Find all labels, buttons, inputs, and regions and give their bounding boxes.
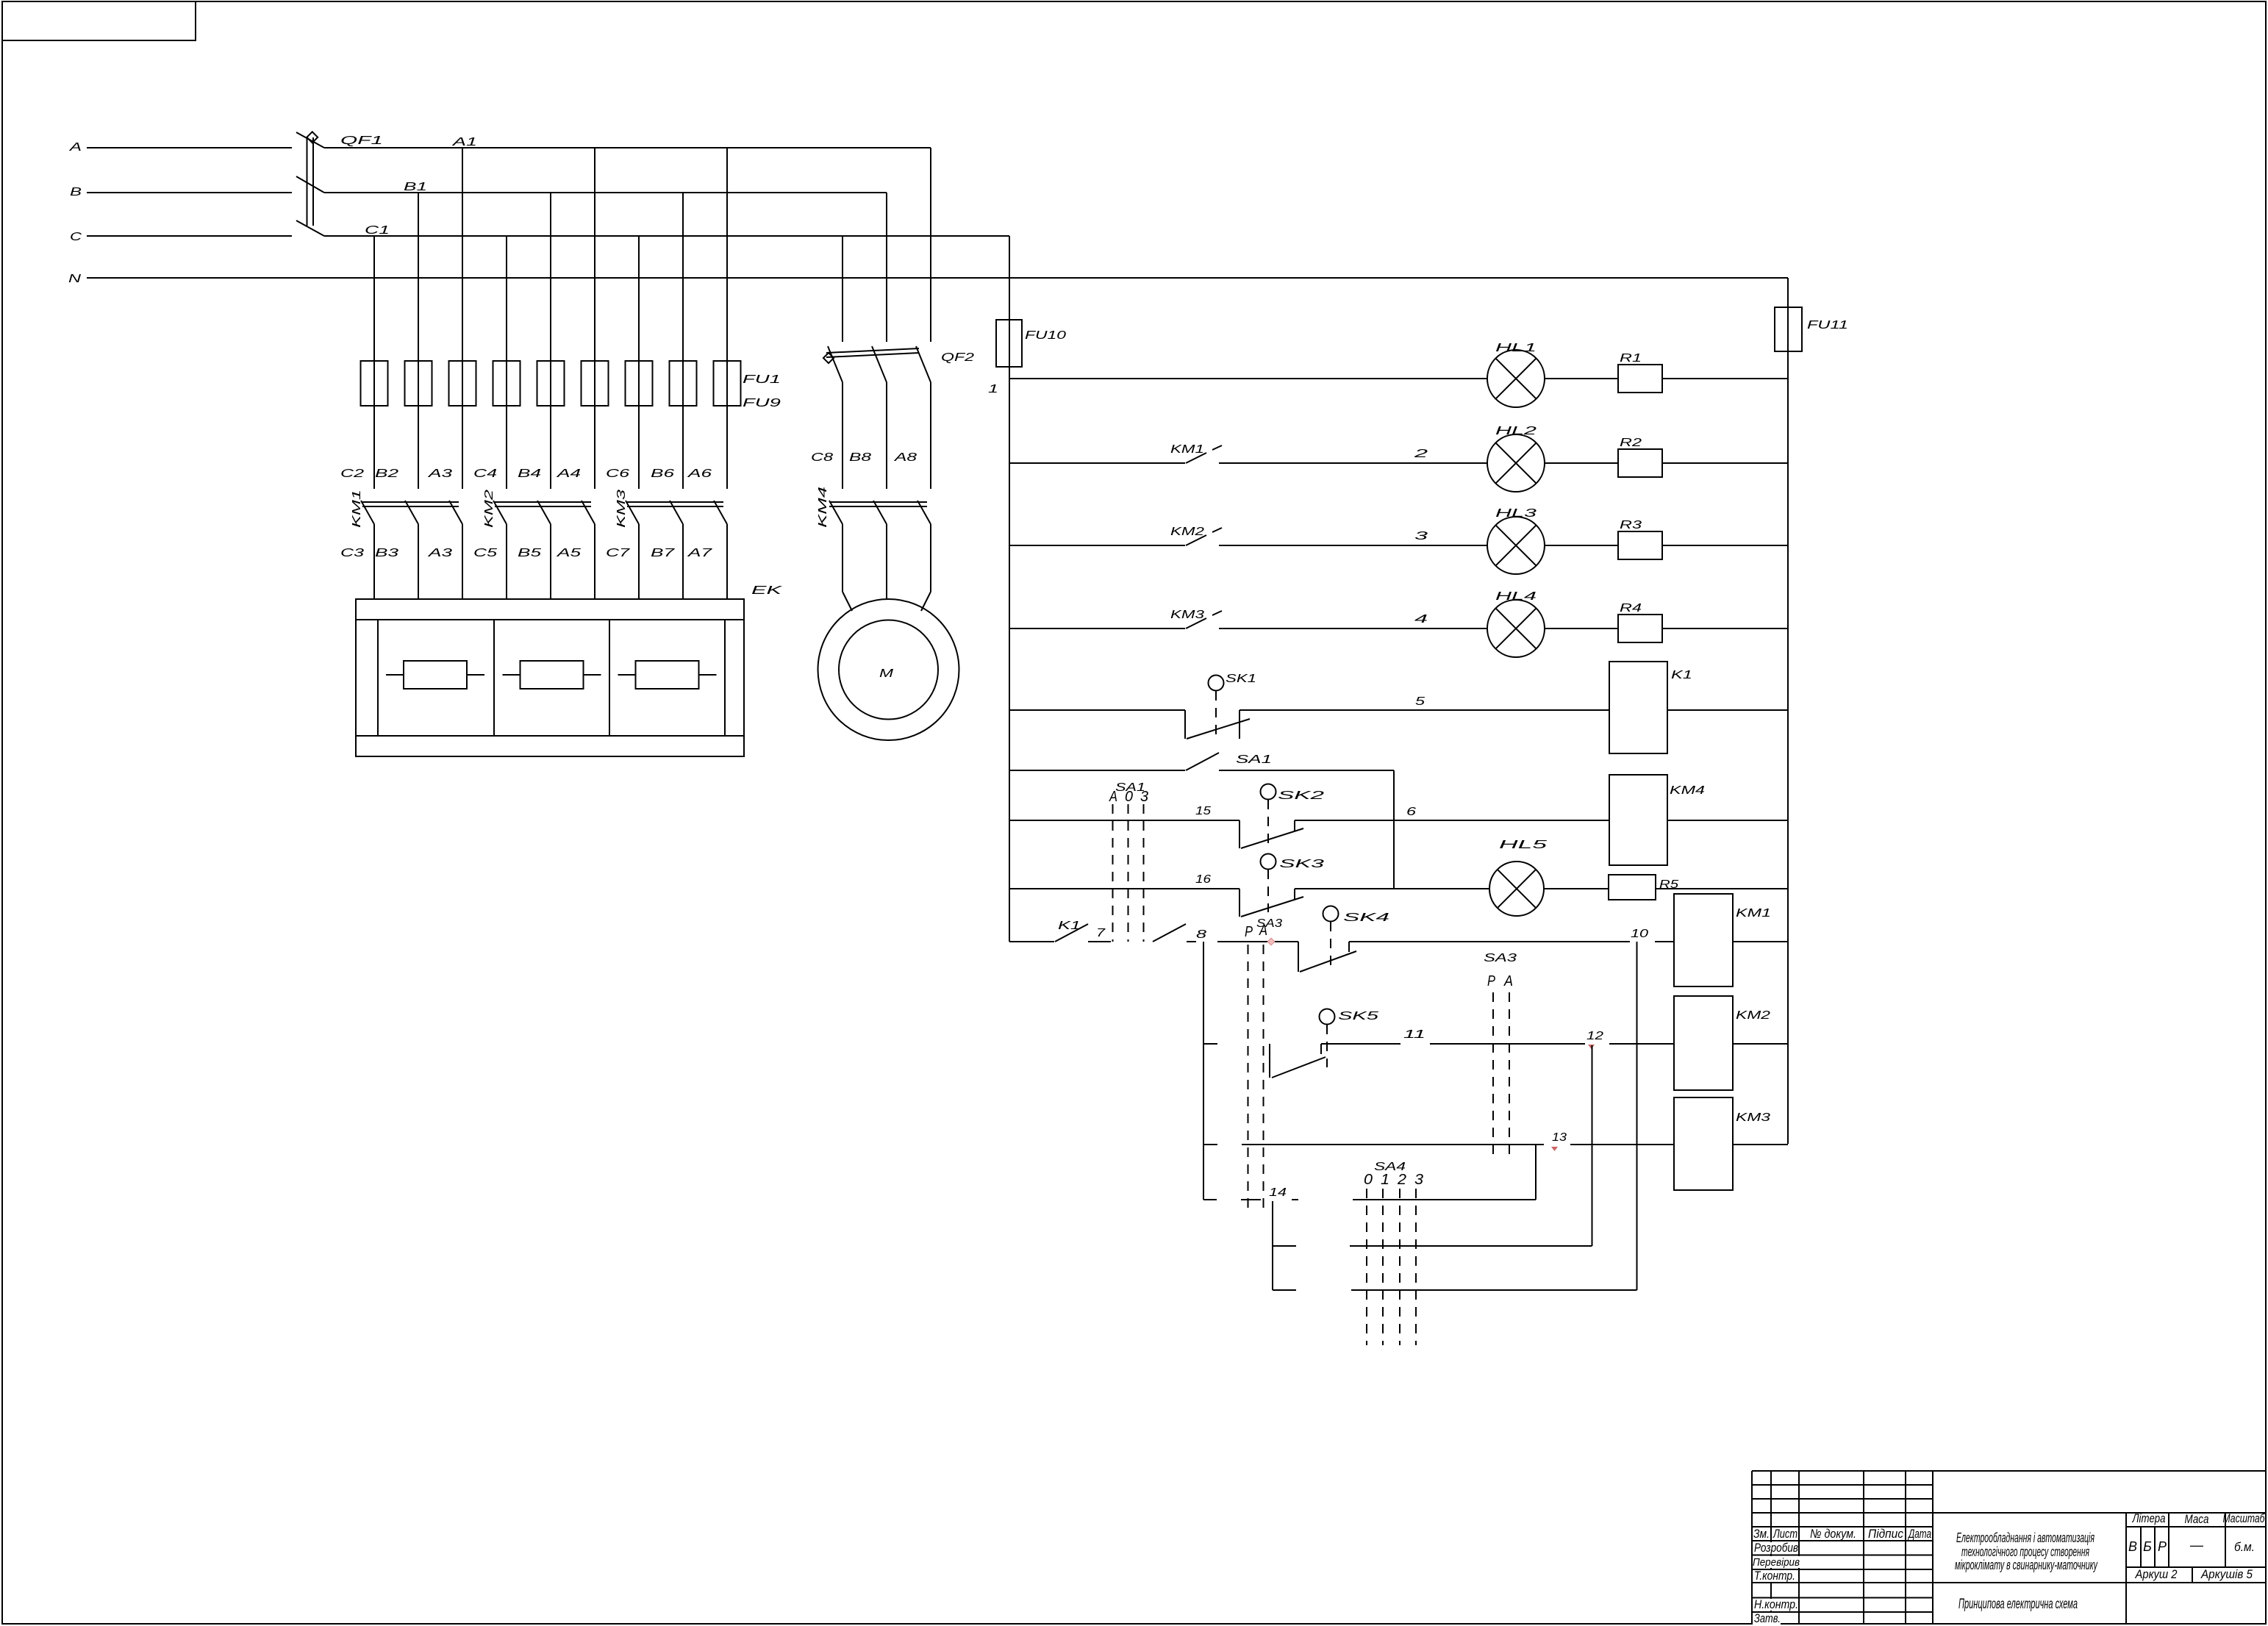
svg-text:Маса: Маса bbox=[2185, 1512, 2209, 1526]
fuse FU11 bbox=[1775, 307, 1848, 351]
switch SA3 columns P A (right group) bbox=[1484, 952, 1517, 1161]
svg-text:Дата: Дата bbox=[1908, 1527, 1931, 1541]
svg-text:KM1: KM1 bbox=[1170, 443, 1204, 456]
svg-text:мікроклімату в свинарнику-мато: мікроклімату в свинарнику-маточнику bbox=[1955, 1557, 2098, 1572]
svg-text:R3: R3 bbox=[1620, 519, 1642, 531]
svg-text:7: 7 bbox=[1096, 927, 1106, 939]
svg-text:P: P bbox=[1487, 973, 1496, 989]
svg-text:B6: B6 bbox=[651, 468, 674, 480]
contactor coil KM1 bbox=[1674, 894, 1771, 986]
wire 11 bbox=[1321, 1028, 1585, 1044]
wire 1 (row 1) bbox=[1009, 378, 1788, 379]
svg-text:SA1: SA1 bbox=[1236, 753, 1272, 766]
svg-text:R1: R1 bbox=[1620, 352, 1642, 365]
wire labels C3 B3 A3 C5 B5 A5 C7 B7 A7 bbox=[340, 547, 713, 559]
wire 14 up to 13 bbox=[1535, 1145, 1537, 1200]
svg-text:B3: B3 bbox=[375, 547, 398, 559]
circuit breaker QF2 bbox=[823, 346, 974, 382]
wire node 10 down bbox=[1636, 942, 1638, 1290]
auxiliary contact KM3 bbox=[1009, 609, 1222, 628]
svg-text:KM2: KM2 bbox=[483, 490, 496, 528]
svg-text:FU9: FU9 bbox=[743, 397, 781, 409]
wire 14 bbox=[1203, 1186, 1536, 1200]
wire 2 to right bus bbox=[1545, 462, 1618, 464]
svg-text:HL5: HL5 bbox=[1499, 839, 1547, 851]
right control bus (N through FU11 down to row 13) bbox=[1787, 278, 1789, 1144]
contactor KM4 main contacts bbox=[817, 487, 931, 528]
wires from contacts to heater EK bbox=[374, 524, 727, 599]
svg-text:Р: Р bbox=[2158, 1539, 2167, 1554]
svg-text:KM4: KM4 bbox=[817, 487, 829, 528]
resistor R4 bbox=[1618, 602, 1662, 642]
svg-text:A4: A4 bbox=[556, 468, 581, 480]
svg-text:N: N bbox=[68, 273, 82, 285]
svg-text:11: 11 bbox=[1403, 1028, 1425, 1041]
wire row 7 left bbox=[1009, 941, 1054, 942]
svg-text:P: P bbox=[1245, 924, 1253, 940]
heater EK bbox=[356, 584, 784, 756]
svg-text:A: A bbox=[1259, 923, 1267, 939]
contactor coil KM4 bbox=[1609, 775, 1705, 865]
svg-text:15: 15 bbox=[1195, 805, 1211, 817]
wire 13 left stub bbox=[1203, 1144, 1217, 1145]
svg-text:8: 8 bbox=[1196, 928, 1206, 941]
svg-text:SK3: SK3 bbox=[1279, 858, 1324, 870]
wire HL5 to R5 bbox=[1544, 888, 1609, 889]
lamp HL3 bbox=[1487, 507, 1545, 574]
thermal switch SK3 bbox=[1239, 854, 1324, 917]
svg-text:A6: A6 bbox=[687, 468, 712, 480]
switch SA4 position columns 0 1 2 3 bbox=[1364, 1161, 1423, 1345]
svg-text:б.м.: б.м. bbox=[2234, 1540, 2255, 1554]
wire drop from node 8 bbox=[1203, 942, 1204, 1200]
relay coil K1 bbox=[1609, 662, 1692, 753]
svg-text:1: 1 bbox=[1381, 1172, 1389, 1188]
svg-text:A8: A8 bbox=[893, 451, 917, 464]
wire 15 bbox=[1009, 805, 1239, 820]
svg-text:A1: A1 bbox=[451, 136, 477, 148]
lamp HL5 bbox=[1489, 839, 1547, 916]
bus C bbox=[70, 231, 1009, 243]
svg-text:C8: C8 bbox=[811, 451, 833, 464]
lamp HL2 bbox=[1487, 425, 1545, 492]
svg-text:R4: R4 bbox=[1620, 602, 1642, 615]
svg-text:C6: C6 bbox=[606, 468, 629, 480]
circuit breaker QF1 bbox=[296, 132, 383, 236]
switch SA3 columns P A (left group) bbox=[1245, 917, 1282, 1213]
contactor KM2 main contacts bbox=[483, 490, 595, 528]
contactor coil KM3 bbox=[1674, 1097, 1770, 1190]
wire row 5 right bbox=[1667, 709, 1788, 711]
wires KM4 to motor bbox=[843, 524, 931, 611]
svg-text:C4: C4 bbox=[473, 468, 497, 480]
contactor coil KM2 bbox=[1674, 996, 1770, 1090]
svg-text:2: 2 bbox=[1397, 1172, 1406, 1188]
svg-text:—: — bbox=[2189, 1538, 2204, 1552]
svg-text:FU1: FU1 bbox=[743, 373, 781, 386]
svg-text:12: 12 bbox=[1586, 1030, 1603, 1042]
fuse FU10 bbox=[996, 320, 1066, 367]
svg-text:Т.контр.: Т.контр. bbox=[1754, 1569, 1795, 1583]
wire SA1 to node 6 bbox=[1219, 770, 1394, 889]
svg-text:14: 14 bbox=[1269, 1186, 1287, 1199]
svg-text:C2: C2 bbox=[340, 468, 364, 480]
svg-text:HL2: HL2 bbox=[1495, 425, 1537, 437]
wire 6 bbox=[1295, 806, 1609, 820]
svg-text:K1: K1 bbox=[1671, 669, 1692, 681]
wires from buses to fuse group bbox=[374, 148, 727, 489]
svg-text:KM4: KM4 bbox=[1670, 784, 1705, 797]
svg-text:Аркушів 5: Аркушів 5 bbox=[2200, 1567, 2253, 1581]
svg-text:4: 4 bbox=[1414, 613, 1428, 626]
wire 7 bbox=[1088, 927, 1111, 942]
svg-text:6: 6 bbox=[1406, 806, 1416, 818]
svg-text:B5: B5 bbox=[518, 547, 541, 559]
wire node 12 down bbox=[1592, 1045, 1593, 1246]
wire row 16 right bbox=[1656, 888, 1788, 889]
svg-text:10: 10 bbox=[1631, 928, 1648, 940]
title block bbox=[1752, 1471, 2266, 1624]
relay contact K1 bbox=[1055, 920, 1088, 942]
wire 16 bbox=[1009, 873, 1239, 889]
wire 2 bbox=[1219, 448, 1487, 463]
wire 13 bbox=[1242, 1131, 1674, 1151]
motor M bbox=[818, 599, 959, 740]
svg-text:A3: A3 bbox=[427, 547, 452, 559]
svg-text:C7: C7 bbox=[606, 547, 631, 559]
wire labels C2 B2 A3 C4 B4 A4 C6 B6 A6 bbox=[340, 468, 712, 480]
svg-text:Б: Б bbox=[2143, 1539, 2152, 1554]
svg-text:HL4: HL4 bbox=[1495, 590, 1537, 603]
svg-text:2: 2 bbox=[1413, 448, 1428, 460]
thermal switch SK1 (NC contact) bbox=[1185, 673, 1256, 739]
svg-text:Лист: Лист bbox=[1772, 1527, 1797, 1541]
svg-text:EK: EK bbox=[751, 584, 784, 597]
svg-text:13: 13 bbox=[1552, 1131, 1567, 1144]
svg-text:C5: C5 bbox=[473, 547, 497, 559]
svg-text:SK2: SK2 bbox=[1278, 789, 1324, 802]
svg-text:3: 3 bbox=[1414, 530, 1428, 542]
svg-text:№ докум.: № докум. bbox=[1810, 1527, 1856, 1541]
wires QF2 to KM4, nodes C8 B8 A8 bbox=[811, 382, 931, 489]
svg-text:C1: C1 bbox=[365, 224, 390, 237]
svg-text:KM1: KM1 bbox=[351, 490, 363, 528]
svg-text:Масштаб: Масштаб bbox=[2223, 1511, 2266, 1525]
svg-text:Принципова електрична схема: Принципова електрична схема bbox=[1958, 1597, 2078, 1612]
svg-text:C3: C3 bbox=[340, 547, 364, 559]
lamp HL1 bbox=[1487, 342, 1545, 407]
svg-text:QF1: QF1 bbox=[340, 135, 383, 147]
wire 8 bbox=[1187, 928, 1298, 942]
svg-text:Аркуш 2: Аркуш 2 bbox=[2135, 1567, 2178, 1581]
svg-text:SK4: SK4 bbox=[1343, 912, 1389, 924]
svg-text:A3: A3 bbox=[427, 468, 452, 480]
svg-text:5: 5 bbox=[1415, 695, 1425, 708]
svg-text:FU10: FU10 bbox=[1025, 329, 1066, 342]
svg-text:A: A bbox=[1109, 789, 1117, 805]
wire from 14 down bbox=[1272, 1201, 1273, 1290]
wire 11 left stub bbox=[1203, 1043, 1217, 1045]
svg-text:1: 1 bbox=[988, 383, 998, 395]
svg-text:16: 16 bbox=[1195, 873, 1211, 886]
thermal switch SK5 bbox=[1270, 1009, 1378, 1078]
wire 10 bbox=[1349, 928, 1674, 942]
wire row 10 right bbox=[1733, 941, 1788, 942]
switch SA1 contact (row 7-8) bbox=[1153, 924, 1186, 942]
auxiliary contact KM2 bbox=[1009, 526, 1222, 545]
svg-text:QF2: QF2 bbox=[941, 351, 974, 364]
left control bus (wire from C through FU10 down to row 7) bbox=[1009, 236, 1010, 942]
wires from buses to QF2 bbox=[843, 148, 931, 342]
svg-text:A7: A7 bbox=[687, 547, 712, 559]
svg-text:A: A bbox=[69, 141, 82, 154]
wire row 5 left bbox=[1009, 709, 1185, 711]
svg-text:В: В bbox=[2128, 1539, 2137, 1554]
svg-text:HL3: HL3 bbox=[1495, 507, 1537, 520]
svg-text:Розробив: Розробив bbox=[1754, 1541, 1798, 1555]
resistor R5 bbox=[1609, 875, 1678, 900]
svg-text:A5: A5 bbox=[556, 547, 581, 559]
svg-text:0: 0 bbox=[1125, 789, 1133, 805]
contactor KM3 main contacts bbox=[615, 490, 727, 528]
svg-text:3: 3 bbox=[1414, 1172, 1423, 1188]
wire 5 bbox=[1239, 695, 1609, 710]
wire 3 bbox=[1219, 530, 1487, 545]
svg-text:B: B bbox=[70, 186, 82, 198]
svg-text:KM2: KM2 bbox=[1170, 526, 1204, 538]
svg-text:0: 0 bbox=[1364, 1172, 1373, 1188]
svg-text:KM3: KM3 bbox=[1170, 609, 1204, 621]
wire 4 to right bus bbox=[1545, 628, 1618, 629]
svg-text:KM3: KM3 bbox=[615, 490, 628, 528]
svg-text:M: M bbox=[879, 667, 894, 680]
fuses FU1...FU9 bbox=[361, 361, 781, 409]
svg-text:Зм.: Зм. bbox=[1753, 1527, 1770, 1541]
svg-text:Н.контр.: Н.контр. bbox=[1754, 1597, 1798, 1611]
svg-text:K1: K1 bbox=[1058, 920, 1081, 932]
svg-text:SK5: SK5 bbox=[1338, 1010, 1378, 1022]
svg-text:R2: R2 bbox=[1620, 437, 1642, 449]
bus N bbox=[68, 273, 1788, 285]
svg-text:Електрообладнання і автоматиза: Електрообладнання і автоматизація bbox=[1956, 1530, 2094, 1545]
wire row 6 right bbox=[1667, 820, 1788, 821]
resistor R2 bbox=[1618, 437, 1662, 477]
switch SA1 contact (upper) bbox=[1009, 753, 1272, 770]
svg-text:B2: B2 bbox=[375, 468, 398, 480]
svg-text:3: 3 bbox=[1140, 789, 1148, 805]
svg-text:A: A bbox=[1503, 973, 1513, 989]
node 12 bbox=[1586, 1030, 1603, 1049]
contactor KM1 main contacts bbox=[351, 490, 462, 528]
svg-text:KM2: KM2 bbox=[1736, 1009, 1770, 1022]
wire row to node 10 (bottom) bbox=[1273, 1289, 1637, 1291]
wire row to node 12 (lower) bbox=[1273, 1245, 1592, 1247]
resistor R1 bbox=[1618, 352, 1662, 393]
svg-text:B8: B8 bbox=[849, 451, 871, 464]
svg-text:B1: B1 bbox=[404, 181, 427, 193]
bus A bbox=[69, 141, 931, 154]
thermal switch SK2 bbox=[1239, 784, 1324, 849]
svg-text:SA3: SA3 bbox=[1484, 952, 1517, 964]
svg-text:Підпис: Підпис bbox=[1868, 1527, 1903, 1541]
switch SA1 position columns A 0 3 bbox=[1109, 781, 1148, 942]
wire 4 bbox=[1219, 613, 1487, 628]
svg-text:Літера: Літера bbox=[2132, 1511, 2166, 1525]
svg-text:KM3: KM3 bbox=[1736, 1111, 1770, 1124]
svg-text:FU11: FU11 bbox=[1807, 319, 1848, 332]
svg-text:B7: B7 bbox=[651, 547, 676, 559]
svg-text:C: C bbox=[70, 231, 82, 243]
svg-text:SK1: SK1 bbox=[1226, 673, 1256, 685]
svg-text:Перевірив: Перевірив bbox=[1753, 1556, 1800, 1569]
thermal switch SK4 bbox=[1298, 906, 1389, 973]
wire row 12 right bbox=[1733, 1043, 1788, 1045]
svg-text:B4: B4 bbox=[518, 468, 541, 480]
lamp HL4 bbox=[1487, 590, 1545, 657]
svg-text:HL1: HL1 bbox=[1495, 342, 1537, 354]
resistor R3 bbox=[1618, 519, 1662, 559]
auxiliary contact KM1 bbox=[1009, 443, 1222, 463]
wire 16 to HL5 bbox=[1295, 888, 1489, 889]
wire 12 bbox=[1609, 1043, 1674, 1045]
bus B bbox=[70, 186, 887, 198]
wire row 13 right bbox=[1733, 1144, 1788, 1145]
svg-text:Затв.: Затв. bbox=[1754, 1611, 1781, 1625]
svg-text:KM1: KM1 bbox=[1736, 907, 1771, 920]
wire 3 to right bus bbox=[1545, 545, 1618, 546]
node marker (junction) bbox=[1267, 938, 1275, 945]
